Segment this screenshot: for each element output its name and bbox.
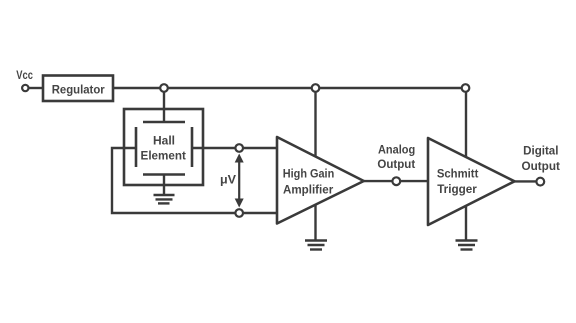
node hall output bottom (235, 209, 243, 217)
svg-text:Regulator: Regulator (52, 82, 105, 96)
wire amplifier vertical (supply/ground) (314, 88, 316, 240)
measurement arrow uV (235, 154, 244, 208)
hall element U2 (124, 109, 203, 185)
junction J3 (462, 84, 470, 92)
label analog output (377, 143, 415, 172)
node hall output top (235, 144, 243, 152)
wire amplifier output to schmitt input (364, 180, 428, 182)
svg-text:Schmitt: Schmitt (437, 167, 479, 181)
svg-text:Output: Output (377, 157, 415, 171)
ground amplifier (305, 241, 327, 250)
wire schmitt output to digital terminal (515, 180, 538, 182)
svg-text:Amplifier: Amplifier (283, 182, 333, 196)
wire hall right electrode to amplifier upper input (192, 147, 277, 149)
junction J2 (312, 84, 320, 92)
junction J1 (160, 84, 168, 92)
terminal Vcc (22, 85, 28, 91)
schmitt trigger U4 (428, 138, 515, 225)
ground schmitt (456, 241, 478, 250)
svg-text:Analog: Analog (378, 143, 415, 157)
ground hall (154, 175, 175, 204)
wire hall left electrode to amplifier lower input (112, 148, 277, 213)
wire Vcc lead (27, 87, 43, 89)
label digital output (522, 143, 560, 173)
svg-text:Vcc: Vcc (16, 68, 33, 82)
wire Vcc supply rail (113, 87, 466, 89)
svg-text:High Gain: High Gain (283, 166, 335, 180)
terminal digital output (536, 178, 544, 186)
svg-text:Digital: Digital (523, 143, 558, 157)
wire hall supply drop (163, 88, 165, 122)
regulator U1 (43, 76, 113, 102)
amplifier U3 (277, 137, 364, 224)
svg-text:μV: μV (220, 172, 237, 186)
svg-text:Trigger: Trigger (437, 182, 477, 196)
svg-text:Output: Output (522, 159, 560, 173)
terminal analog output (392, 177, 400, 185)
wire schmitt vertical (supply/ground) (465, 88, 467, 240)
svg-text:Hall: Hall (153, 134, 175, 148)
svg-text:Element: Element (141, 148, 186, 162)
